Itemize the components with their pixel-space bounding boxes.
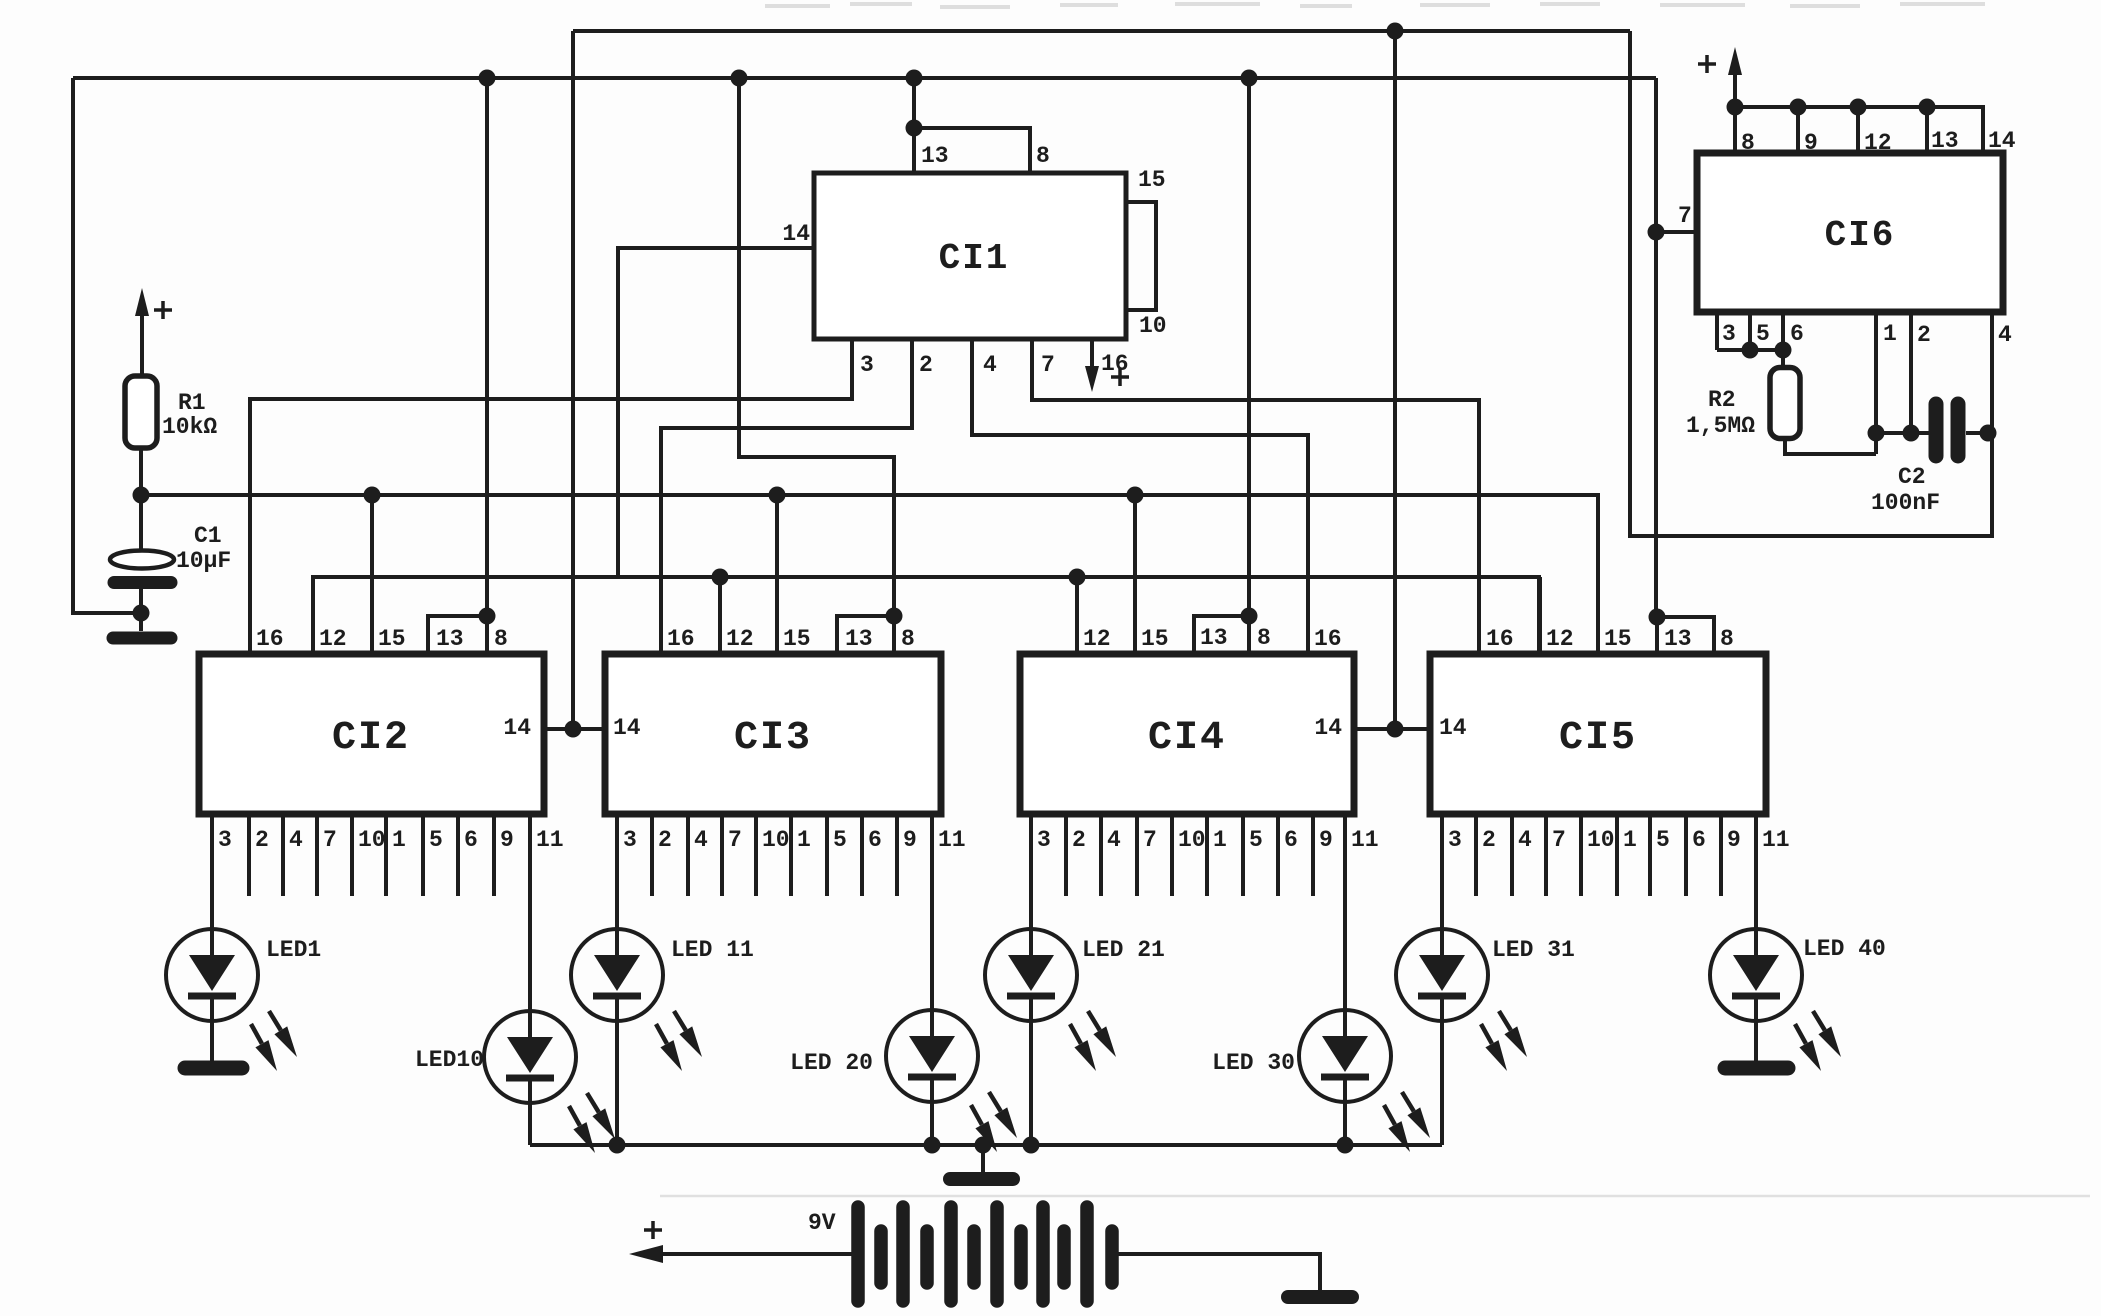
CI4 pin 8 label <box>1257 625 1271 651</box>
CI1 pin13/8 bracket <box>914 128 1030 173</box>
label LED30 <box>1212 1050 1295 1076</box>
svg-text:13: 13 <box>436 626 464 652</box>
CI4 pin13/8 bracket <box>1194 616 1249 654</box>
CI4 pin 10 stub <box>1170 814 1174 896</box>
wire CI4 pin11 to LED30 <box>1343 814 1347 1010</box>
svg-text:12: 12 <box>1083 626 1111 652</box>
svg-text:LED 40: LED 40 <box>1803 936 1886 962</box>
CI5 pin 14 label <box>1439 715 1467 741</box>
LED LED11 <box>571 929 702 1071</box>
CI2 pin 13 label <box>436 626 464 652</box>
svg-text:C2: C2 <box>1898 464 1926 490</box>
CI4 pin 7 label <box>1143 827 1157 853</box>
wire CI1 pin7 to CI5 pin16 <box>1032 339 1479 654</box>
CI4 pin 9 stub <box>1311 814 1315 896</box>
CI6 pin 3-5-6 bracket <box>1717 348 1783 352</box>
CI6 pin 12 stub <box>1856 107 1860 153</box>
CI3 pin 1 stub <box>789 814 793 896</box>
svg-text:14: 14 <box>503 715 531 741</box>
wire LED40 to ground <box>1754 1021 1758 1061</box>
junction CI6 pin 12 <box>1850 99 1867 116</box>
wire top bus 2 <box>73 76 1656 80</box>
CI6 pin 3 stub <box>1715 312 1719 350</box>
svg-text:11: 11 <box>1351 827 1379 853</box>
CI3 pin 9 label <box>903 827 917 853</box>
svg-text:9: 9 <box>1319 827 1333 853</box>
wire CI1 pin4 to CI4 pin16 <box>972 339 1308 654</box>
CI4 pin 7 stub <box>1135 814 1139 896</box>
junction CI6 pin 13 <box>1919 99 1936 116</box>
wire left frame down to C1 ground <box>73 78 142 613</box>
CI4 pin 15 stub <box>1133 495 1137 654</box>
CI3 pin 11 label <box>938 827 966 853</box>
label C1 <box>194 523 222 549</box>
CI4 pin 3 label <box>1037 827 1051 853</box>
svg-text:10: 10 <box>762 827 790 853</box>
CI3 pin 2 stub <box>650 814 654 896</box>
label 10uF <box>176 548 231 574</box>
svg-text:11: 11 <box>1762 827 1790 853</box>
CI6 pin 1 label <box>1883 321 1897 347</box>
CI4 pin 6 label <box>1284 827 1298 853</box>
junction CI6 pin 2 <box>1903 425 1920 442</box>
junction CI4/CI5 pin14 <box>1387 721 1404 738</box>
CI1 pin16 power arrow <box>1085 339 1099 392</box>
junction C1/left frame <box>133 605 150 622</box>
label CI2 <box>332 716 410 761</box>
svg-text:LED 21: LED 21 <box>1082 937 1165 963</box>
svg-text:5: 5 <box>1249 827 1263 853</box>
label C2 <box>1898 464 1926 490</box>
LED LED20 <box>886 1010 1017 1152</box>
CI6 pin 12 label <box>1864 130 1892 156</box>
label LED1 <box>266 937 321 963</box>
junction y495 / CI2 pin15 <box>364 487 381 504</box>
svg-text:10µF: 10µF <box>176 548 231 574</box>
junction CI6 pin4 / C2 <box>1980 425 1997 442</box>
svg-text:4: 4 <box>983 352 997 378</box>
battery positive lead with arrow <box>629 1245 852 1263</box>
wire CI5 pin3 to LED31 <box>1440 814 1444 929</box>
ground below bus <box>950 1172 1013 1186</box>
CI2 pin 3 label <box>218 827 232 853</box>
svg-text:6: 6 <box>868 827 882 853</box>
IC CI6 box <box>1697 153 2003 312</box>
CI2 pin 15 stub <box>370 495 374 654</box>
LED LED31 <box>1396 929 1527 1071</box>
CI6 pin 2 stub <box>1909 312 1913 433</box>
svg-text:14: 14 <box>1439 715 1467 741</box>
IC CI1 box <box>814 173 1126 339</box>
svg-text:14: 14 <box>1314 715 1342 741</box>
svg-text:3: 3 <box>1037 827 1051 853</box>
svg-text:1,5MΩ: 1,5MΩ <box>1686 413 1755 439</box>
label LED40 <box>1803 936 1886 962</box>
svg-text:CI2: CI2 <box>332 716 410 761</box>
CI6 pin 13 stub <box>1925 107 1929 153</box>
wire CI1 pin13 riser <box>912 78 916 128</box>
CI4 pin 10 label <box>1178 827 1206 853</box>
junction LED20/bus <box>924 1137 941 1154</box>
CI5 pin 6 stub <box>1684 814 1688 896</box>
node R1/C1/line <box>133 487 150 504</box>
svg-text:11: 11 <box>536 827 564 853</box>
CI2 pin 2 stub <box>247 814 251 896</box>
CI2 pin 7 label <box>323 827 337 853</box>
svg-text:7: 7 <box>1143 827 1157 853</box>
CI1 pin 3 label <box>860 352 874 378</box>
junction CI2 pin 8 bracket <box>479 608 496 625</box>
CI5 pin 16 label <box>1486 626 1514 652</box>
LED LED10 <box>484 1011 615 1153</box>
svg-text:CI1: CI1 <box>939 238 1010 279</box>
CI4 pin 4 label <box>1107 827 1121 853</box>
CI4 pin 16 label <box>1314 626 1342 652</box>
LED LED1 <box>166 929 297 1071</box>
IC CI3 box <box>605 654 941 814</box>
svg-text:1: 1 <box>797 827 811 853</box>
svg-text:1: 1 <box>1883 321 1897 347</box>
ground below C1 <box>113 632 171 645</box>
wire top bus 1 <box>573 29 1630 33</box>
junction CI6 pin 8 <box>1727 99 1744 116</box>
CI6 pin 5 label <box>1756 321 1770 347</box>
wire line y495 (pin15 net) <box>141 495 1598 654</box>
svg-text:CI6: CI6 <box>1825 215 1896 256</box>
wire CI1 pin14 to y577 <box>618 248 814 577</box>
CI3 pin13/8 bracket <box>837 616 894 654</box>
junction y495 / CI4 pin15 <box>1127 487 1144 504</box>
CI2 pin 9 label <box>500 827 514 853</box>
svg-text:15: 15 <box>1138 167 1166 193</box>
svg-text:LED10: LED10 <box>415 1047 484 1073</box>
CI6 pin 8 label <box>1741 130 1755 156</box>
CI3 pin 5 label <box>833 827 847 853</box>
CI2 pin 11 label <box>536 827 564 853</box>
CI5 pin 12 label <box>1546 626 1574 652</box>
CI6 pin 6 label <box>1790 321 1804 347</box>
junction CI6 pin 5 <box>1742 342 1759 359</box>
svg-text:R2: R2 <box>1708 387 1736 413</box>
CI2 pin 1 label <box>392 827 406 853</box>
junction y577 / CI4 pin12 <box>1069 569 1086 586</box>
IC CI2 box <box>199 654 544 814</box>
svg-text:6: 6 <box>1692 827 1706 853</box>
wire CI2 pin8 riser <box>485 78 489 616</box>
CI5 pin 4 stub <box>1510 814 1514 896</box>
CI4 pin 1 label <box>1213 827 1227 853</box>
label LED20 <box>790 1050 873 1076</box>
junction LED11/bus <box>609 1137 626 1154</box>
svg-text:3: 3 <box>1722 321 1736 347</box>
CI5 pin 5 stub <box>1648 814 1652 896</box>
svg-text:10: 10 <box>1587 827 1615 853</box>
CI3 pin 10 label <box>762 827 790 853</box>
junction LED30/bus <box>1337 1137 1354 1154</box>
CI5 pin 10 label <box>1587 827 1615 853</box>
CI4 pin 12 stub <box>1075 577 1079 654</box>
CI3 pin 3 label <box>623 827 637 853</box>
svg-text:16: 16 <box>667 626 695 652</box>
svg-text:16: 16 <box>256 626 284 652</box>
svg-text:7: 7 <box>728 827 742 853</box>
CI4 pin 14 wire <box>1354 727 1430 731</box>
wire CI6 pin7 / CI5 pin13 riser <box>1654 78 1658 617</box>
svg-text:16: 16 <box>1314 626 1342 652</box>
svg-text:3: 3 <box>860 352 874 378</box>
CI3 pin 7 label <box>728 827 742 853</box>
svg-text:7: 7 <box>323 827 337 853</box>
wire LED1 to ground <box>210 1021 214 1061</box>
svg-text:6: 6 <box>1284 827 1298 853</box>
CI3 pin 10 stub <box>754 814 758 896</box>
svg-text:14: 14 <box>1988 128 2016 154</box>
CI3 pin 9 stub <box>895 814 899 896</box>
junction top bus 1 / x1395 <box>1387 23 1404 40</box>
junction CI6 pin 9 <box>1790 99 1807 116</box>
label LED31 <box>1492 937 1575 963</box>
CI5 pin 3 label <box>1448 827 1462 853</box>
CI4 pin 2 label <box>1072 827 1086 853</box>
CI2 pin 14 wire <box>544 727 605 731</box>
wire LED20 to bus <box>930 1102 934 1145</box>
CI5 pin13/8 bracket <box>1657 617 1714 654</box>
wire CI3 pin11 to LED20 <box>930 814 934 1010</box>
CI2 pin 10 label <box>358 827 386 853</box>
CI3 pin 4 label <box>694 827 708 853</box>
label CI4 <box>1148 716 1226 761</box>
wire C1 to ground <box>139 589 143 631</box>
CI6 pin 6 stub <box>1781 312 1785 368</box>
svg-text:CI5: CI5 <box>1559 716 1637 761</box>
label LED11 <box>671 937 754 963</box>
svg-text:14: 14 <box>782 221 810 247</box>
CI5 pin 1 stub <box>1615 814 1619 896</box>
wire bus ground stub <box>981 1145 985 1172</box>
svg-text:9: 9 <box>1804 130 1818 156</box>
CI1 pin15/10 bracket <box>1126 202 1156 310</box>
CI5 pin 7 label <box>1552 827 1566 853</box>
svg-text:12: 12 <box>1864 130 1892 156</box>
wire CI2 pin11 to LED10 <box>528 814 532 1011</box>
CI2 pin 5 label <box>429 827 443 853</box>
CI2 pin 12 label <box>319 626 347 652</box>
svg-text:4: 4 <box>1107 827 1121 853</box>
CI5 pin 13 label <box>1664 626 1692 652</box>
label CI3 <box>734 716 812 761</box>
svg-text:10: 10 <box>1178 827 1206 853</box>
svg-text:15: 15 <box>1141 626 1169 652</box>
wire CI1 pin3 to CI2 pin16 <box>250 339 852 654</box>
ground at battery negative <box>1288 1290 1352 1304</box>
CI5 pin 6 label <box>1692 827 1706 853</box>
label CI6 <box>1825 215 1896 256</box>
LED LED21 <box>985 929 1116 1071</box>
ground below LED40 <box>1725 1061 1788 1076</box>
CI1 pin 15 label <box>1138 167 1166 193</box>
CI2 pin 15 label <box>378 626 406 652</box>
junction bus2 / CI3 pin8 <box>731 70 748 87</box>
svg-text:1: 1 <box>392 827 406 853</box>
junction LED21/bus <box>1023 1137 1040 1154</box>
CI5 pin 8 label <box>1720 626 1734 652</box>
label LED10 <box>415 1047 484 1073</box>
junction bus2 / CI2 pin8 <box>479 70 496 87</box>
CI5 pin 4 label <box>1518 827 1532 853</box>
junction CI3 pin 8 bracket <box>886 608 903 625</box>
svg-text:12: 12 <box>1546 626 1574 652</box>
CI6 pin 3 label <box>1722 321 1736 347</box>
CI1 pin 4 label <box>983 352 997 378</box>
svg-text:3: 3 <box>623 827 637 853</box>
CI2 pin 2 label <box>255 827 269 853</box>
label CI1 <box>939 238 1010 279</box>
CI1 pin 8 label <box>1036 143 1050 169</box>
svg-text:10: 10 <box>358 827 386 853</box>
svg-text:2: 2 <box>919 352 933 378</box>
svg-text:14: 14 <box>613 715 641 741</box>
CI2 pin 7 stub <box>315 814 319 896</box>
junction y577 / CI3 pin12 <box>712 569 729 586</box>
CI2 pin 14 label <box>503 715 531 741</box>
CI3 pin 14 label <box>613 715 641 741</box>
junction CI2/CI3 pin14 <box>565 721 582 738</box>
svg-text:3: 3 <box>218 827 232 853</box>
LED LED30 <box>1299 1010 1430 1152</box>
CI3 pin 16 label <box>667 626 695 652</box>
junction CI6 pin 1 <box>1868 425 1885 442</box>
svg-text:13: 13 <box>1931 128 1959 154</box>
CI6 pin 8 stub <box>1733 107 1737 153</box>
wire LED10 to bus <box>528 1103 532 1145</box>
svg-text:15: 15 <box>378 626 406 652</box>
wire R2 bottom to pin1 <box>1785 438 1876 454</box>
svg-text:4: 4 <box>1998 322 2012 348</box>
wire LED31 to bus <box>1440 1021 1444 1145</box>
CI3 pin 8 label <box>901 626 915 652</box>
svg-text:6: 6 <box>464 827 478 853</box>
CI4 pin 6 stub <box>1276 814 1280 896</box>
CI2 pin 10 stub <box>350 814 354 896</box>
CI5 pin 12 stub <box>1538 577 1542 654</box>
wire junction to C1 <box>139 495 143 552</box>
svg-text:8: 8 <box>901 626 915 652</box>
CI1 pin 7 label <box>1041 352 1055 378</box>
svg-text:13: 13 <box>921 143 949 169</box>
svg-text:C1: C1 <box>194 523 222 549</box>
CI3 pin 1 label <box>797 827 811 853</box>
svg-text:LED 11: LED 11 <box>671 937 754 963</box>
CI5 pin 2 label <box>1482 827 1496 853</box>
CI6 pin 2 label <box>1917 322 1931 348</box>
svg-text:15: 15 <box>783 626 811 652</box>
CI4 pin 13 label <box>1200 625 1228 651</box>
svg-text:13: 13 <box>845 626 873 652</box>
wire CI3 pin8 riser <box>739 78 894 616</box>
CI3 pin 15 label <box>783 626 811 652</box>
CI3 pin 7 stub <box>720 814 724 896</box>
svg-text:12: 12 <box>319 626 347 652</box>
svg-text:13: 13 <box>1664 626 1692 652</box>
CI4 pin 9 label <box>1319 827 1333 853</box>
wire R1 to C1 <box>139 448 143 495</box>
label 1,5M <box>1686 413 1755 439</box>
CI5 pin 9 label <box>1727 827 1741 853</box>
junction CI1 pin13 bracket <box>906 120 923 137</box>
svg-text:7: 7 <box>1678 203 1692 229</box>
wire vertical x1395 to CI4/CI5 pin14 <box>1393 31 1397 729</box>
CI6 pin 1 stub <box>1874 312 1878 454</box>
wire CI5 pin11 to LED40 <box>1754 814 1758 929</box>
svg-text:2: 2 <box>255 827 269 853</box>
svg-text:9: 9 <box>500 827 514 853</box>
CI3 pin 6 stub <box>860 814 864 896</box>
svg-text:5: 5 <box>1656 827 1670 853</box>
wire bottom ground bus <box>530 1143 1442 1147</box>
CI1 pin 16 label <box>1101 351 1129 377</box>
svg-text:10: 10 <box>1139 313 1167 339</box>
svg-text:12: 12 <box>726 626 754 652</box>
CI3 pin 13 label <box>845 626 873 652</box>
wire drop to CI6 pin4 <box>1630 31 1992 536</box>
svg-text:5: 5 <box>833 827 847 853</box>
plus sign at CI1 pin16 <box>1111 368 1129 386</box>
capacitor C1 plate + <box>110 551 174 569</box>
CI5 pin 7 stub <box>1544 814 1548 896</box>
wire LED21 to bus <box>1029 1021 1033 1145</box>
svg-text:13: 13 <box>1200 625 1228 651</box>
IC CI4 box <box>1020 654 1354 814</box>
svg-text:16: 16 <box>1101 351 1129 377</box>
CI4 pin 12 label <box>1083 626 1111 652</box>
svg-text:2: 2 <box>1482 827 1496 853</box>
CI1 pin 13 label <box>921 143 949 169</box>
CI1 pin 10 label <box>1139 313 1167 339</box>
svg-text:CI4: CI4 <box>1148 716 1226 761</box>
CI3 pin 2 label <box>658 827 672 853</box>
CI6 pin 7 wire <box>1653 230 1697 234</box>
CI5 pin 9 stub <box>1719 814 1723 896</box>
label R1 <box>178 390 206 416</box>
CI4 pin 2 stub <box>1064 814 1068 896</box>
CI6 pin 7 label <box>1678 203 1692 229</box>
junction CI6 pin 6 <box>1775 342 1792 359</box>
svg-text:CI3: CI3 <box>734 716 812 761</box>
battery negative lead <box>1118 1254 1320 1291</box>
wire LED30 to bus <box>1343 1102 1347 1145</box>
svg-text:5: 5 <box>429 827 443 853</box>
CI2 pin 8 label <box>494 626 508 652</box>
wire CI2 pin3 to LED1 <box>210 814 214 929</box>
junction bus2 / CI4 pin8 <box>1241 70 1258 87</box>
wire CI4 pin3 to LED21 <box>1029 814 1033 929</box>
CI4 pin 5 stub <box>1241 814 1245 896</box>
svg-text:R1: R1 <box>178 390 206 416</box>
CI3 pin 12 label <box>726 626 754 652</box>
label 100nF <box>1871 490 1940 516</box>
plus sign at R1 arrow <box>154 301 172 319</box>
CI6 power arrow <box>1728 47 1742 107</box>
junction y495 / CI3 pin15 <box>769 487 786 504</box>
CI2 pin 4 label <box>289 827 303 853</box>
battery B1 9V <box>858 1207 1112 1301</box>
CI2 pin 5 stub <box>421 814 425 896</box>
CI6 pin 9 stub <box>1796 107 1800 153</box>
capacitor C2 plate right <box>1951 404 1966 456</box>
CI4 pin 5 label <box>1249 827 1263 853</box>
junction bus/ground stub <box>975 1137 992 1154</box>
CI2 pin 1 stub <box>384 814 388 896</box>
